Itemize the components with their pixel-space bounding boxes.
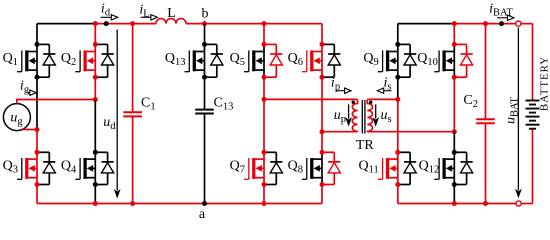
junction primary top tap — [262, 97, 267, 102]
node b — [202, 7, 209, 22]
node ug+ junction — [93, 97, 98, 102]
junction leg2 / top rail — [93, 21, 98, 26]
transistor Q4 — [61, 150, 114, 187]
wire leg4 rail corner to Q6 (red) — [321, 24, 323, 45]
transistor Q12 — [419, 150, 473, 187]
current label is — [377, 76, 391, 94]
transistor Q8 — [288, 150, 341, 187]
wire ug top terminal (red) — [17, 100, 95, 104]
svg-text:L: L — [167, 6, 176, 21]
node a — [199, 207, 206, 222]
wire leg3 rail to Q5 (red) — [263, 24, 265, 45]
current label id — [101, 2, 118, 21]
wire leg1 junction to Q3 (red) — [36, 130, 38, 153]
inductor L — [156, 6, 186, 24]
wire leg6 rail to Q10 (red) — [453, 24, 455, 45]
transistor Q13 — [165, 42, 223, 80]
wire primary top (red) — [264, 98, 358, 100]
junction primary bottom tap — [320, 129, 325, 134]
source ug — [3, 104, 30, 131]
voltage arrow ud — [103, 30, 120, 199]
wire leg3 Q5 to Q7 (red) — [263, 77, 265, 152]
wire leg3 Q7 to bottom rail (red) — [263, 185, 265, 204]
wire node b to Q13 (black) — [204, 24, 206, 45]
svg-text:b: b — [202, 7, 209, 22]
wire top rail Q10 to battery (red) — [454, 23, 532, 25]
transistor Q11 — [359, 150, 417, 187]
transistor Q1 — [3, 42, 56, 80]
junction leg3 / top rail — [262, 21, 267, 26]
transistor Q2 — [61, 42, 114, 80]
wire leg1 Q1 source to ug junction (black) — [36, 77, 38, 129]
svg-text:BATTERY: BATTERY — [539, 56, 550, 111]
transformer TR polarity dot secondary — [369, 101, 372, 104]
current label ig — [20, 79, 36, 96]
junction C2 / top rail — [483, 21, 488, 26]
current label ip — [331, 76, 351, 94]
wire leg1 rail to Q1 (black) — [36, 24, 38, 45]
capacitor C1 — [123, 24, 155, 204]
node iBAT measurement dot — [499, 21, 504, 26]
junction secondary bottom tap — [452, 129, 457, 134]
current label iBAT — [489, 2, 514, 21]
terminal node bottom (open circle) — [516, 201, 521, 206]
wire leg4 Q6 to Q8 (red) — [321, 77, 323, 152]
wire leg2 Q2 to ug junction (red) — [94, 77, 96, 99]
junction leg6 / top rail — [452, 21, 457, 26]
transformer TR core — [362, 100, 365, 134]
node id measurement dot — [104, 21, 109, 26]
transistor Q3 — [3, 150, 56, 187]
capacitor C13 — [195, 77, 233, 203]
junction leg2 / bottom rail — [93, 201, 98, 206]
junction leg6 / bottom rail — [452, 201, 457, 206]
wire leg2 rail to Q2 (red) — [94, 24, 96, 45]
junction C1 / bottom rail — [130, 201, 135, 206]
voltage arrow uBAT — [504, 28, 522, 199]
capacitor C2 — [463, 24, 494, 204]
junction C2 / bottom rail — [483, 201, 488, 206]
junction leg3 / bottom rail — [262, 201, 267, 206]
voltage arrow up — [334, 104, 352, 126]
wire top rail inductor to node b and Q6 (red) — [186, 23, 322, 25]
wire leg4 Q8 to bottom rail (red) — [321, 185, 323, 204]
wire leg5 junction to Q11 (red) — [397, 99, 399, 152]
svg-text:TR: TR — [356, 138, 375, 153]
current label iL — [139, 3, 157, 21]
transistor Q10 — [417, 42, 472, 80]
junction C1 / top rail — [130, 21, 135, 26]
wire secondary bottom (red) — [367, 131, 454, 133]
transistor Q6 — [288, 42, 341, 80]
wire leg6 Q10 to secondary tap (red) — [453, 77, 455, 132]
junction secondary top tap — [395, 97, 400, 102]
transistor Q5 — [230, 42, 283, 80]
wire top rail Q2 to inductor (red) — [95, 23, 156, 25]
battery BATTERY — [526, 24, 550, 204]
wire ug bottom terminal (red) — [22, 129, 37, 131]
transistor Q7 — [230, 150, 283, 187]
junction node a on rail — [202, 201, 207, 206]
svg-text:a: a — [199, 207, 206, 222]
wire bottom rail right bridge to battery (red) — [398, 203, 533, 205]
transformer TR secondary winding — [367, 99, 372, 131]
label TR — [356, 138, 375, 153]
transformer TR polarity dot primary — [352, 101, 355, 104]
wire leg6 Q12 to bottom rail (black) — [453, 185, 455, 204]
wire leg5 Q11 to bottom rail (red) — [397, 185, 399, 204]
transistor Q9 — [363, 42, 416, 80]
wire top rail Q9-Q10 (black) — [398, 23, 455, 25]
wire leg2 Q4 to bottom rail (black) — [94, 185, 96, 204]
node ug- junction — [35, 127, 40, 132]
terminal node top (open circle) — [516, 21, 521, 26]
wire leg2 junction to Q4 (black) — [94, 100, 96, 153]
voltage arrow us — [372, 104, 391, 126]
transformer TR primary winding — [352, 99, 357, 131]
wire secondary top (red) — [367, 98, 398, 100]
wire leg1 Q3 to bottom rail (red) — [36, 185, 38, 204]
wire top rail Q1-Q2 (black) — [37, 23, 95, 25]
wire leg6 tap to Q12 (black) — [453, 132, 455, 153]
wire primary bottom (red) — [322, 131, 358, 133]
junction node b on rail — [202, 21, 207, 26]
wire leg5 rail corner to Q9 (black) — [397, 24, 399, 45]
wire leg5 Q9 to junction (black) — [397, 77, 399, 99]
wire bottom rail left bridges (red) — [37, 203, 322, 205]
